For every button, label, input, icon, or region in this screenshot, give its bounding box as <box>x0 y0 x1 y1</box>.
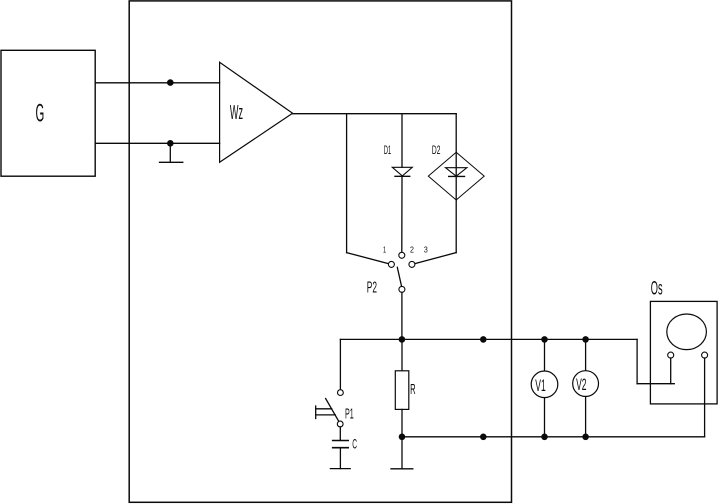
wire P1 to capacitor <box>339 427 341 441</box>
resistor R <box>395 371 409 410</box>
system boundary box <box>129 1 511 502</box>
svg-text:Os: Os <box>651 277 663 299</box>
svg-text:D2: D2 <box>432 143 441 157</box>
junction upper input <box>167 79 174 86</box>
ground under C <box>330 468 350 470</box>
wire resistor to bottom bus <box>401 409 403 436</box>
switch P2 pole <box>399 286 405 292</box>
switch P2 contact 1 <box>388 261 394 267</box>
wire to Os left terminal <box>637 383 674 385</box>
amplifier Wz <box>220 62 293 162</box>
wire top bus down to Os <box>636 339 638 383</box>
ground at amp input <box>160 143 183 162</box>
generator G <box>1 50 95 176</box>
wire left branch down <box>346 114 348 253</box>
voltmeter V1 <box>531 339 558 436</box>
pushbutton P1 <box>316 390 344 427</box>
junction V1 bottom <box>541 434 548 441</box>
diode inside D2 <box>446 168 467 177</box>
svg-text:2: 2 <box>410 244 414 254</box>
wire D2 branch lower <box>455 200 457 253</box>
wire bus to resistor <box>401 339 403 370</box>
junction V2 bottom <box>582 434 589 441</box>
wire amp output <box>293 113 457 115</box>
oscilloscope Os <box>650 301 717 404</box>
junction bottom bus at R <box>399 434 406 441</box>
diode D1 <box>392 167 412 176</box>
svg-text:G: G <box>36 99 45 127</box>
ground under R <box>391 468 413 470</box>
voltmeter V2 <box>573 339 599 436</box>
wire Os right terminal to bottom bus <box>704 358 706 437</box>
wire D1 branch upper <box>401 114 403 168</box>
wire D1 branch lower <box>401 176 403 252</box>
wire bottom bus to ground <box>401 437 403 469</box>
junction lower input <box>167 140 174 147</box>
junction V2 top <box>582 336 589 343</box>
svg-text:Wz: Wz <box>230 102 243 124</box>
svg-text:C: C <box>352 435 357 451</box>
wire upper G to amp <box>95 82 219 84</box>
wire P2 pole to top bus <box>401 292 403 339</box>
svg-text:V2: V2 <box>576 376 586 394</box>
photodiode D2 diamond <box>428 152 484 200</box>
switch P2 wiper arm <box>397 267 401 286</box>
svg-text:3: 3 <box>424 244 428 254</box>
wire Os left terminal stub <box>670 358 672 384</box>
wire capacitor to ground <box>339 448 341 469</box>
switch P2 contact 2 <box>399 252 405 258</box>
wire bottom bus <box>402 436 705 438</box>
wire through diamond <box>455 152 457 200</box>
svg-text:D1: D1 <box>384 143 392 157</box>
svg-text:1: 1 <box>383 244 386 254</box>
wire diagonal to contact 1 <box>347 253 389 264</box>
svg-text:R: R <box>410 381 416 398</box>
svg-text:V1: V1 <box>535 377 545 395</box>
wire D2 branch upper <box>455 114 457 153</box>
wire lower G to amp <box>95 142 219 144</box>
capacitor C <box>333 441 349 448</box>
wire diagonal to contact 3 <box>415 253 457 264</box>
wire top bus down to P1 <box>339 339 341 388</box>
junction top bus at P2 <box>399 336 406 343</box>
switch P2 contact 3 <box>409 261 415 267</box>
junction V1 top <box>541 336 548 343</box>
svg-text:P1: P1 <box>345 405 354 422</box>
junction bottom bus node <box>480 434 487 441</box>
svg-text:P2: P2 <box>367 280 377 297</box>
wire top bus <box>340 338 637 340</box>
junction top bus node <box>480 336 487 343</box>
